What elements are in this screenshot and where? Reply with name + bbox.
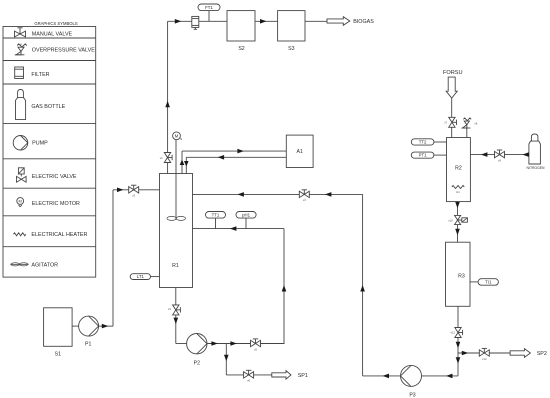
svg-text:S3: S3 xyxy=(288,46,294,52)
purge SP1 block arrow xyxy=(272,371,291,380)
flow arrow left before valve xyxy=(325,192,332,197)
svg-text:GRAPHICS SYMBOLS: GRAPHICS SYMBOLS xyxy=(34,21,77,26)
instrument LT1 xyxy=(130,274,150,280)
legend gas bottle label xyxy=(31,104,65,110)
flow arrow down after tee xyxy=(456,357,461,364)
analyser A1 xyxy=(286,135,313,167)
svg-text:v10: v10 xyxy=(448,219,453,223)
svg-text:pH1: pH1 xyxy=(242,212,250,217)
svg-text:BIOGAS: BIOGAS xyxy=(353,19,374,25)
wire top biogas header xyxy=(168,20,192,22)
wire tee to SP2 xyxy=(458,352,510,354)
wire P3 to recirculation riser xyxy=(363,375,401,377)
legend box frame xyxy=(3,27,96,278)
valve v4 label xyxy=(303,198,306,202)
pump P2 xyxy=(187,334,207,354)
instrument TI1 xyxy=(478,279,498,286)
legend manual valve symbol xyxy=(15,28,26,37)
wire TI1 connector xyxy=(470,281,478,283)
flow arrow after tee xyxy=(230,341,237,346)
flow arrow P2 discharge xyxy=(211,341,218,346)
manual valve v5 on P2 discharge xyxy=(251,339,261,347)
legend electrical heater symbol xyxy=(14,233,26,236)
wire recirculation into R1 xyxy=(193,194,363,376)
svg-text:ELECTRIC VALVE: ELECTRIC VALVE xyxy=(32,174,77,180)
wire PT1 connector xyxy=(434,154,447,156)
flow arrow right to A1 xyxy=(237,149,244,154)
flow arrow out of R2 xyxy=(455,202,460,209)
flow arrow up on riser xyxy=(165,101,170,108)
scrubber S2 xyxy=(227,11,255,41)
flow arrow down to P2 xyxy=(174,318,179,325)
instrument TT2 xyxy=(411,139,434,145)
label P1 xyxy=(85,342,91,348)
wire R1 to analyser A1 supply xyxy=(182,151,286,173)
filter F1 on biogas line xyxy=(192,16,199,29)
svg-text:v7: v7 xyxy=(444,121,447,125)
label A1 xyxy=(297,149,303,155)
label BIOGAS xyxy=(353,19,374,25)
flow arrow into P3 xyxy=(446,374,453,379)
manual valve v1 on riser xyxy=(164,153,172,163)
legend overpressure valve symbol xyxy=(15,44,27,55)
svg-text:OVERPRESSURE VALVE: OVERPRESSURE VALVE xyxy=(32,47,95,53)
svg-text:v5: v5 xyxy=(254,347,257,351)
legend electric valve symbol xyxy=(17,168,27,182)
overpressure valve label xyxy=(474,122,477,126)
wire riser from reactor R1 top to biogas line xyxy=(167,21,169,173)
wire pH1 connector xyxy=(245,218,247,229)
flow arrow up to A1 xyxy=(180,160,185,166)
wire S2 to S3 xyxy=(255,20,278,22)
manual valve v4 on recirculation line xyxy=(299,190,309,198)
flow arrow into R2 xyxy=(481,152,488,157)
flow arrow right on biogas header xyxy=(175,19,182,24)
scrubber S3 xyxy=(278,11,305,41)
label S1 xyxy=(55,351,61,357)
svg-text:PUMP: PUMP xyxy=(32,141,48,147)
svg-text:H1: H1 xyxy=(456,190,460,194)
svg-text:R2: R2 xyxy=(455,166,462,172)
svg-text:v8: v8 xyxy=(474,122,477,126)
wire P1 to R1 inlet xyxy=(99,190,160,326)
svg-text:MANUAL VALVE: MANUAL VALVE xyxy=(32,32,73,38)
label R1 xyxy=(172,263,179,269)
manual valve v6 on SP1 line xyxy=(244,370,254,378)
svg-text:P3: P3 xyxy=(409,392,415,398)
label R3 xyxy=(458,273,465,279)
manual valve v11 below R3 xyxy=(455,328,463,338)
valve v9 label xyxy=(498,158,501,162)
svg-text:v6: v6 xyxy=(247,379,250,383)
reactor R1 xyxy=(160,174,193,288)
legend gas bottle symbol xyxy=(16,90,26,120)
flow arrow S2 to S3 xyxy=(260,19,267,24)
wire R3 drain xyxy=(457,306,459,376)
label FORSU xyxy=(443,70,463,76)
flow arrow P1 discharge xyxy=(102,324,109,329)
legend electrical heater label xyxy=(31,232,87,238)
biogas outlet block arrow xyxy=(327,17,350,26)
svg-text:v3: v3 xyxy=(168,307,171,311)
purge SP2 block arrow xyxy=(510,349,530,358)
svg-text:TT1: TT1 xyxy=(212,212,220,217)
svg-text:FORSU: FORSU xyxy=(443,70,463,76)
label SP1 xyxy=(298,373,308,379)
svg-text:P2: P2 xyxy=(194,360,200,366)
flow arrow P3 discharge xyxy=(383,374,390,379)
legend agitator label xyxy=(31,263,58,269)
manual valve v12 on SP2 line xyxy=(479,348,489,356)
wire nitrogen to R2 xyxy=(470,154,529,156)
label P3 xyxy=(409,392,415,398)
FORSU inlet block arrow xyxy=(446,77,457,98)
svg-text:SP1: SP1 xyxy=(298,373,308,379)
legend title xyxy=(34,21,77,26)
legend overpressure valve label xyxy=(32,47,95,53)
wire R2 to valve v10 xyxy=(457,202,459,243)
svg-text:TI1: TI1 xyxy=(485,279,492,284)
svg-text:R3: R3 xyxy=(458,273,465,279)
svg-text:P1: P1 xyxy=(85,342,91,348)
label R2 xyxy=(455,166,462,172)
svg-text:v2: v2 xyxy=(132,194,135,198)
svg-text:ELECTRICAL HEATER: ELECTRICAL HEATER xyxy=(31,232,87,238)
label NITROGEN xyxy=(527,166,545,170)
flow arrow down to R1 xyxy=(184,161,189,167)
legend agitator symbol xyxy=(10,263,28,266)
electric valve v10 below R2 xyxy=(455,215,468,224)
flow arrow up on riser to sensor line xyxy=(282,285,287,292)
pump P1 xyxy=(79,316,99,336)
svg-text:ELECTRIC MOTOR: ELECTRIC MOTOR xyxy=(32,201,80,207)
svg-text:A1: A1 xyxy=(297,149,303,155)
wire S1 to P1 xyxy=(72,325,79,327)
flow arrow left on sensor line xyxy=(230,226,237,231)
valve v12 label xyxy=(482,357,487,361)
instrument pH1 xyxy=(236,212,256,219)
svg-text:M: M xyxy=(175,133,179,138)
svg-text:NITROGEN: NITROGEN xyxy=(527,166,545,170)
flow arrow toward SP2 xyxy=(462,351,469,356)
svg-text:S2: S2 xyxy=(238,46,244,52)
gas bottle NITROGEN xyxy=(529,134,541,164)
svg-text:AGITATOR: AGITATOR xyxy=(31,263,58,269)
instrument TT1 xyxy=(206,212,226,219)
valve v3 label xyxy=(168,307,171,311)
legend filter label xyxy=(31,72,49,78)
svg-text:v12: v12 xyxy=(482,357,487,361)
flow arrow into R3 xyxy=(455,229,460,236)
label S2 xyxy=(238,46,244,52)
manual valve v9 on nitrogen line xyxy=(495,150,505,158)
feed tank S1 xyxy=(44,308,73,347)
flow arrow below v11 xyxy=(456,342,461,349)
wire analyser A1 return xyxy=(186,157,286,173)
legend filter symbol xyxy=(15,67,24,79)
electric motor M on R1 xyxy=(173,132,182,140)
heater H1 in R2 xyxy=(452,186,465,189)
svg-text:v9: v9 xyxy=(498,158,501,162)
flow arrow left from A1 xyxy=(218,155,225,160)
legend pump symbol xyxy=(13,136,28,151)
manual valve v7 on FORSU line xyxy=(449,117,457,127)
instrument FT1 xyxy=(198,4,220,11)
flow arrow left near R1 xyxy=(237,192,244,197)
svg-text:v1: v1 xyxy=(160,156,163,160)
valve v10 label xyxy=(448,219,453,223)
legend electric motor label xyxy=(32,201,80,207)
valve v6 label xyxy=(247,379,250,383)
svg-text:FILTER: FILTER xyxy=(31,72,49,78)
wire filter to S2 xyxy=(199,20,227,22)
agitator shaft in R1 xyxy=(175,140,177,220)
wire FT1 connector xyxy=(208,11,210,22)
svg-text:TT2: TT2 xyxy=(419,139,427,144)
wire TT1 connector xyxy=(215,218,217,229)
label P2 xyxy=(194,360,200,366)
label H1 xyxy=(456,190,460,194)
overpressure valve on R2 xyxy=(462,118,472,138)
wire FORSU to valve xyxy=(451,98,453,137)
instrument PT1 xyxy=(411,152,434,158)
flow arrow down at tee xyxy=(224,355,229,362)
legend manual valve label xyxy=(32,32,73,38)
wire P2 discharge xyxy=(207,343,284,345)
flow arrow from bottle xyxy=(522,152,529,157)
valve v1 label xyxy=(160,156,163,160)
wire R1 drain xyxy=(176,288,187,344)
svg-text:R1: R1 xyxy=(172,263,179,269)
reactor R3 xyxy=(446,242,471,306)
reactor R2 xyxy=(447,138,471,202)
wire R3 tee to P3 xyxy=(422,375,459,377)
svg-text:PT1: PT1 xyxy=(419,153,427,158)
manual valve v2 on R1 inlet xyxy=(129,185,139,193)
svg-text:FT1: FT1 xyxy=(205,5,213,10)
valve v11 label xyxy=(451,330,456,334)
svg-text:M: M xyxy=(19,199,22,204)
wire TT2 connector xyxy=(434,141,447,143)
svg-text:LT1: LT1 xyxy=(137,274,145,279)
agitator propeller in R1 xyxy=(167,216,185,220)
legend pump label xyxy=(32,141,48,147)
wire R1 sensor line xyxy=(193,229,285,344)
flow arrow into valve v2 xyxy=(117,188,124,193)
pump P3 xyxy=(401,365,422,386)
valve v7 label xyxy=(444,121,447,125)
label SP2 xyxy=(537,351,547,357)
valve v2 label xyxy=(132,194,135,198)
manual valve v3 on drain xyxy=(173,305,181,315)
svg-text:SP2: SP2 xyxy=(537,351,547,357)
svg-text:GAS BOTTLE: GAS BOTTLE xyxy=(31,104,65,110)
wire S3 to biogas outlet xyxy=(305,20,327,22)
legend electric valve label xyxy=(32,174,77,180)
wire tee to purge SP1 xyxy=(226,344,271,375)
flow arrow up on recirculation riser xyxy=(360,285,365,292)
legend electric motor symbol xyxy=(17,198,24,207)
svg-text:v4: v4 xyxy=(303,198,306,202)
svg-text:S1: S1 xyxy=(55,351,61,357)
label S3 xyxy=(288,46,294,52)
svg-text:v11: v11 xyxy=(451,330,456,334)
wire LT1 connector xyxy=(151,276,160,278)
valve v5 label xyxy=(254,347,257,351)
